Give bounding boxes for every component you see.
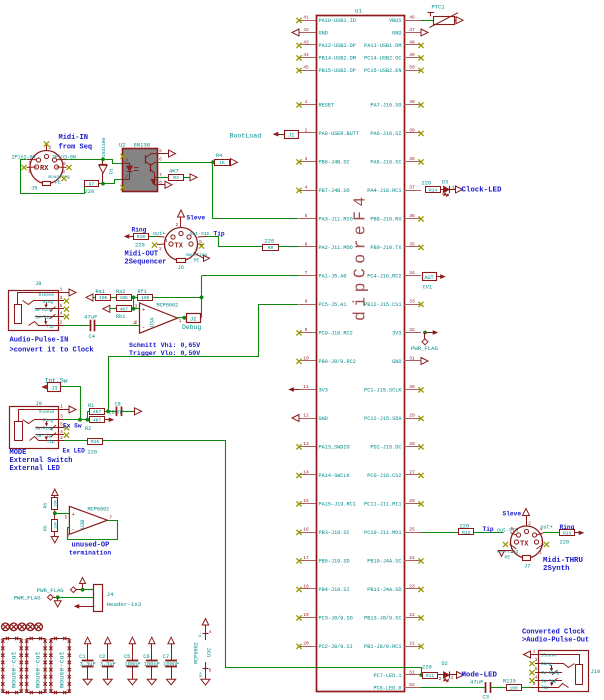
svg-text:R1: R1 [88, 403, 94, 409]
svg-text:Ring: Ring [132, 227, 147, 234]
U1 pin 52 PC6-LED.0 [404, 687, 421, 689]
node divider [132, 296, 136, 300]
svg-text:25: 25 [409, 526, 415, 532]
svg-text:1: 1 [28, 169, 31, 175]
U1 pin 9 PC9-J19.RC2 [299, 332, 316, 334]
J10 pin 4 [535, 680, 539, 682]
U1 pin 42 GND [299, 32, 316, 34]
svg-text:Rb1: Rb1 [116, 314, 125, 320]
svg-text:J10: J10 [591, 669, 601, 675]
svg-text:52: 52 [409, 682, 415, 688]
J7 pin 4 stub right [537, 533, 544, 535]
svg-text:mouse-cut: mouse-cut [59, 651, 67, 688]
svg-text:mounting: mounting [49, 175, 70, 180]
svg-text:PA1-J5.A0: PA1-J5.A0 [319, 273, 347, 279]
svg-text:28: 28 [409, 441, 415, 447]
wire J5 pin5 to opto [66, 159, 103, 161]
capacitor C2 3.3uF [105, 637, 111, 644]
U1 pin 43 PA12-USB1.DP [299, 44, 316, 46]
svg-text:D3: D3 [442, 179, 448, 185]
svg-text:R2: R2 [85, 426, 91, 432]
svg-text:18: 18 [303, 583, 309, 589]
svg-text:R14: R14 [429, 187, 438, 193]
svg-text:24: 24 [409, 555, 415, 561]
svg-text:3: 3 [535, 657, 538, 663]
U1 pin 46 VBUS [404, 20, 421, 22]
svg-text:1K: 1K [219, 160, 225, 166]
J8 pin 1 [58, 292, 69, 294]
svg-text:3: 3 [62, 169, 65, 175]
svg-text:7: 7 [159, 172, 162, 178]
U1 pin 6 PA2-J11.MOO [299, 246, 316, 248]
svg-text:5: 5 [65, 514, 68, 520]
svg-text:C5: C5 [124, 654, 130, 660]
svg-text:Sleeve: Sleeve [39, 410, 55, 415]
svg-text:3: 3 [305, 156, 308, 162]
svg-text:7: 7 [305, 270, 308, 276]
svg-text:PTC1: PTC1 [432, 4, 446, 11]
svg-text:40: 40 [409, 99, 415, 105]
wire C4 to opamp [95, 325, 140, 327]
U1 pin 7 PA1-J5.A0 [299, 275, 316, 277]
svg-text:U3A: U3A [150, 317, 156, 327]
svg-text:220: 220 [265, 238, 275, 244]
U1 pin 49 PC14-USB2.OC [404, 57, 421, 59]
GND arrow J4 [57, 597, 59, 601]
U1 pin 47 GND [404, 32, 421, 34]
U1 pin 48 PA11-USB1.DM [404, 44, 421, 46]
svg-text:PE: PE [194, 258, 200, 264]
svg-text:31: 31 [409, 355, 415, 361]
U1 pin 4 PB7-J4B.SO [299, 190, 316, 192]
svg-text:PB7-J4B.SO: PB7-J4B.SO [319, 188, 350, 194]
svg-text:PA11-USB1.DM: PA11-USB1.DM [364, 43, 401, 49]
U1 pin 32 3V3 [404, 332, 421, 334]
op-amp power U3C MCP6002 [202, 619, 208, 626]
U1 pin 3 PB6-J4B.SC [299, 161, 316, 163]
svg-text:5: 5 [511, 526, 514, 532]
U1 pin 25 PC10-J11.MO1 [404, 532, 421, 534]
wire R7 to node [99, 183, 103, 185]
U1 pin 31 GND [404, 360, 421, 362]
svg-text:PC12-J15.SDA: PC12-J15.SDA [364, 416, 402, 422]
svg-text:V-: V- [198, 632, 204, 638]
svg-text:PB13-J8/9.SC: PB13-J8/9.SC [364, 615, 401, 621]
U1 pin 8 PC5-J5.A1 [299, 304, 316, 306]
node D1 top [101, 157, 105, 161]
J9 pin 5 [59, 427, 65, 429]
svg-text:21: 21 [409, 640, 415, 646]
wire Rf1 feedback [153, 297, 202, 299]
svg-text:1: 1 [539, 550, 542, 556]
svg-text:Ex LED: Ex LED [63, 447, 86, 454]
svg-text:2: 2 [60, 435, 63, 441]
svg-text:220: 220 [422, 665, 432, 671]
wire C8 to gnd arrow [121, 411, 134, 413]
svg-text:4K7: 4K7 [120, 307, 129, 313]
node U2 out [211, 160, 215, 164]
wire J3 to Ex SW node [61, 387, 81, 420]
U1 pin 22 PB13-J8/9.SC [404, 617, 421, 619]
svg-text:6N138: 6N138 [134, 142, 151, 149]
svg-text:10K: 10K [99, 295, 108, 301]
svg-text:R11: R11 [426, 673, 435, 679]
svg-text:PA13_SWDIO: PA13_SWDIO [319, 444, 350, 450]
node J4 pin1 [81, 588, 85, 592]
svg-text:R13: R13 [563, 531, 572, 537]
wire opamp out [178, 317, 187, 319]
svg-text:46: 46 [409, 14, 415, 20]
svg-text:U3B: U3B [80, 520, 86, 529]
svg-text:43: 43 [303, 39, 309, 45]
svg-text:4: 4 [209, 629, 212, 635]
svg-text:termination: termination [69, 550, 111, 557]
IC U1 dipCoreF4 body [317, 16, 405, 692]
node pin51 [419, 673, 423, 677]
J10 pin 5 [535, 672, 539, 674]
svg-text:29: 29 [409, 412, 415, 418]
J7 PE arrow [502, 550, 512, 552]
node D1 bottom [101, 182, 105, 186]
svg-text:26: 26 [409, 498, 415, 504]
3V3 arrow R5 [52, 489, 58, 496]
resistor Ex LED 220 [64, 440, 88, 442]
svg-text:J5: J5 [31, 186, 37, 192]
mouse-cut region 1 [3, 639, 21, 693]
svg-text:4: 4 [165, 238, 168, 244]
svg-text:4: 4 [28, 160, 31, 166]
svg-text:23: 23 [409, 583, 415, 589]
svg-text:Audio-Pulse-IN: Audio-Pulse-IN [10, 337, 69, 345]
U1 pin 18 PB4-J19.SI [299, 588, 316, 590]
svg-text:PA15-J19.RC1: PA15-J19.RC1 [319, 501, 356, 507]
U1 pin 29 PC12-J15.SDA [404, 418, 421, 420]
wire R9 to pin6 U1 [278, 246, 299, 248]
svg-text:U2: U2 [119, 142, 126, 149]
svg-text:PA2-J11.MOO: PA2-J11.MOO [319, 245, 353, 251]
U1 pin 27 PC0-J16.CS2 [404, 474, 421, 476]
svg-text:MODE: MODE [10, 449, 27, 457]
svg-text:GND: GND [392, 30, 401, 36]
net arrow Ring J7 [575, 532, 579, 534]
svg-text:3: 3 [60, 295, 63, 301]
3V3 arrow pin 11 [294, 389, 300, 391]
svg-text:10K: 10K [54, 499, 58, 507]
net arrow Mode-LED [457, 672, 464, 679]
U1 pin 17 PB5-J19.SD [299, 560, 316, 562]
svg-text:PB9-J10.TX: PB9-J10.TX [370, 245, 402, 251]
capacitor C7 100nF [168, 637, 174, 644]
svg-text:Midi-IN: Midi-IN [59, 134, 88, 142]
svg-text:42: 42 [303, 27, 309, 33]
svg-text:2: 2 [125, 174, 128, 180]
svg-text:Tip: Tip [47, 440, 55, 445]
svg-text:RX: RX [40, 165, 49, 173]
svg-text:220: 220 [88, 449, 98, 455]
J5 pin 4 stub [27, 158, 36, 160]
svg-text:PB15-USB2.DP: PB15-USB2.DP [319, 68, 356, 74]
svg-text:GND: GND [392, 359, 401, 365]
U1 pin 51 PC7-LED.1 [404, 674, 421, 676]
svg-text:SW-Ring: SW-Ring [35, 426, 53, 431]
svg-text:PA12-USB1.DP: PA12-USB1.DP [319, 43, 356, 49]
svg-text:PC6-LED.0: PC6-LED.0 [373, 685, 401, 691]
DIN connector J5 RX [30, 151, 63, 184]
op-amp U3B MCP6002 [69, 506, 107, 534]
svg-text:2: 2 [60, 320, 63, 326]
GND arrow R6 [54, 532, 56, 537]
svg-text:2: 2 [135, 320, 138, 326]
svg-text:4: 4 [305, 184, 308, 190]
svg-text:R7: R7 [89, 181, 95, 187]
svg-text:47uF: 47uF [84, 313, 97, 320]
svg-text:>Audio-Pulse-Out: >Audio-Pulse-Out [522, 637, 589, 645]
mouse-cut region 2 [27, 639, 45, 693]
svg-text:Ring: Ring [43, 300, 54, 305]
J5 PE no-connect [61, 176, 66, 181]
header J4 1x3 [94, 585, 103, 612]
wire out up to pin7 [201, 276, 203, 318]
svg-text:TX: TX [520, 541, 529, 549]
svg-text:PB0-J8/9.RC2: PB0-J8/9.RC2 [319, 359, 356, 365]
svg-text:PB12-J15.CS1: PB12-J15.CS1 [364, 302, 401, 308]
J9 pin 2 Ex LED [59, 440, 65, 442]
U1 pin 12 GND [299, 418, 316, 420]
svg-text:-: - [71, 527, 75, 534]
svg-text:mouse-cut: mouse-cut [10, 651, 18, 688]
wire to U2 pin3 [103, 160, 123, 164]
wire J8 tip to C4 [64, 325, 90, 327]
svg-text:Ra2: Ra2 [116, 289, 125, 295]
svg-text:3V3: 3V3 [319, 387, 328, 393]
U1 pin 26 PC11-J11.MI1 [404, 503, 421, 505]
svg-text:100: 100 [141, 295, 150, 301]
svg-text:PC2-J8/9.SI: PC2-J8/9.SI [319, 644, 353, 650]
J7 pin 5 stub left [511, 533, 517, 535]
optocoupler U2 6N138 [123, 149, 158, 192]
U1 pin 41 PA10-USB1.ID [299, 20, 316, 22]
wire J5 pin4 loop [21, 160, 85, 194]
svg-text:PC5-J5.A1: PC5-J5.A1 [319, 302, 347, 308]
svg-text:R6: R6 [43, 525, 49, 531]
svg-text:PB6-J4B.SC: PB6-J4B.SC [319, 159, 350, 165]
diode D1 1N4148W [102, 159, 104, 164]
svg-text:J3: J3 [51, 385, 57, 391]
svg-text:Header-1x3: Header-1x3 [107, 601, 142, 608]
svg-text:Ring: Ring [541, 662, 552, 667]
svg-text:3.3uF: 3.3uF [80, 662, 96, 668]
svg-text:5: 5 [305, 213, 308, 219]
svg-text:PWR_FLAG: PWR_FLAG [14, 595, 41, 602]
U1 pin 36 PB8-J10.RX [404, 218, 421, 220]
wire R115 to J10 [521, 687, 530, 689]
svg-text:19: 19 [303, 612, 309, 618]
svg-text:SW-Tip: SW-Tip [36, 316, 52, 321]
svg-text:J8: J8 [35, 281, 41, 287]
svg-text:20: 20 [303, 640, 309, 646]
U1 pin 2 PA0-USER.BUTT [299, 132, 316, 134]
svg-text:2: 2 [305, 127, 308, 133]
svg-text:R3: R3 [173, 175, 179, 181]
svg-text:3: 3 [511, 549, 514, 555]
svg-text:J1: J1 [288, 133, 294, 139]
wire pin52 to C3 [420, 687, 485, 689]
node J4 pin2 [56, 595, 60, 599]
svg-text:Ra1: Ra1 [96, 289, 105, 295]
U1 pin 11 3V3 [299, 389, 316, 391]
svg-text:J4: J4 [107, 591, 114, 598]
svg-text:3.3uF: 3.3uF [100, 662, 116, 668]
U1 pin 19 PC3-J8/9.SO [299, 617, 316, 619]
svg-text:PB5-J19.SD: PB5-J19.SD [319, 558, 350, 564]
svg-text:44: 44 [303, 52, 309, 58]
svg-text:3V3: 3V3 [392, 330, 401, 336]
svg-text:1: 1 [60, 287, 63, 293]
svg-text:10K: 10K [120, 295, 129, 301]
svg-text:PC3-J8/9.SO: PC3-J8/9.SO [319, 615, 353, 621]
svg-text:PB14-USB2.DM: PB14-USB2.DM [319, 55, 356, 61]
svg-text:PB3-J19.SC: PB3-J19.SC [319, 530, 350, 536]
net arrow Ra1 left [86, 294, 93, 301]
node R1R2 join [86, 418, 90, 422]
svg-text:100: 100 [510, 685, 519, 691]
svg-text:mouse-cut: mouse-cut [34, 651, 42, 688]
svg-text:V+: V+ [198, 672, 204, 678]
U1 pin 28 PD2-J15.DC [404, 446, 421, 448]
wire out-SIG to R9 [207, 237, 263, 247]
resistor Rb1 4K7 [117, 306, 132, 312]
svg-text:PA3-J11.MIO: PA3-J11.MIO [319, 216, 353, 222]
svg-text:Sleve: Sleve [503, 511, 522, 518]
DIN connector J6 TX [165, 228, 198, 261]
J6 PE arrow [194, 253, 204, 259]
svg-text:Debug: Debug [182, 324, 201, 331]
svg-text:PWR_FLAG: PWR_FLAG [37, 587, 64, 594]
svg-text:4: 4 [60, 429, 63, 435]
svg-text:8: 8 [305, 298, 308, 304]
svg-text:2Synth: 2Synth [543, 565, 570, 573]
svg-text:220: 220 [85, 189, 95, 195]
svg-text:Schmitt Vhi: 0,65V: Schmitt Vhi: 0,65V [129, 342, 200, 349]
U1 pin 21 PB1-J8/9.RC1 [404, 646, 421, 648]
svg-text:27: 27 [409, 469, 415, 475]
U1 pin 1 RESET [299, 104, 316, 106]
svg-text:220: 220 [135, 243, 145, 249]
node R5 R6 [54, 510, 56, 519]
svg-text:4K7: 4K7 [93, 409, 102, 415]
U1 pin 15 PA15-J19.RC1 [299, 503, 316, 505]
jack J10 [539, 651, 589, 692]
svg-text:Rf1: Rf1 [138, 289, 147, 295]
svg-text:PB1-J8/9.RC1: PB1-J8/9.RC1 [364, 644, 401, 650]
Sleve arrow J7 [523, 509, 530, 516]
svg-text:GND: GND [319, 30, 328, 36]
svg-text:3: 3 [135, 303, 138, 309]
U1 pin 35 PB9-J10.TX [404, 246, 421, 248]
svg-text:41: 41 [303, 14, 309, 20]
J8 pin 5 [58, 308, 64, 310]
net arrow Clock-LED [456, 186, 463, 193]
svg-text:3: 3 [60, 414, 63, 420]
resistor R5 10K [52, 498, 58, 510]
svg-text:PA6-J16.SI: PA6-J16.SI [370, 131, 401, 137]
mouse-cut region 3 [51, 639, 69, 693]
op-amp U3A MCP6002 [140, 303, 178, 333]
svg-text:9: 9 [305, 327, 308, 333]
svg-text:C1: C1 [79, 654, 85, 660]
wire Ex SW rail [64, 419, 90, 421]
svg-text:out+: out+ [541, 525, 553, 531]
wire VBUS to PTC1 [421, 20, 434, 22]
J7 pin 1 stub [537, 544, 544, 549]
node J3 join [78, 418, 82, 422]
svg-text:Sleve: Sleve [187, 215, 206, 222]
capacitor C5 100nF [129, 637, 135, 644]
U1 pin 10 PB0-J8/9.RC2 [299, 360, 316, 362]
U1 pin 50 PC15-USB2.EN [404, 70, 421, 72]
svg-text:PB11-J4A.SD: PB11-J4A.SD [367, 587, 401, 593]
svg-text:7: 7 [109, 514, 112, 520]
svg-text:4K7: 4K7 [169, 168, 179, 174]
svg-text:5: 5 [63, 161, 66, 167]
svg-text:50: 50 [409, 64, 415, 70]
connector J2 Debug [187, 314, 201, 323]
svg-text:14: 14 [303, 469, 309, 475]
svg-text:1: 1 [60, 404, 63, 410]
svg-text:PC14-USB2.OC: PC14-USB2.OC [364, 55, 401, 61]
J9 pin 4 [59, 434, 65, 436]
svg-text:R12: R12 [462, 530, 471, 536]
resistor R2 4K7 [90, 417, 105, 423]
svg-text:AUT: AUT [424, 275, 433, 281]
U1 pin 34 PC4-J16_RC2 [404, 275, 421, 277]
net arrow R4 [230, 162, 231, 164]
svg-text:R10: R10 [137, 234, 146, 240]
wire divider to plus [133, 297, 135, 308]
svg-text:PC10-J11.MO1: PC10-J11.MO1 [364, 530, 401, 536]
wire U3B feedback [68, 521, 118, 540]
svg-text:47uF: 47uF [470, 678, 483, 685]
svg-text:5: 5 [60, 303, 63, 309]
svg-text:C3: C3 [483, 695, 489, 700]
svg-text:PC15-USB2.EN: PC15-USB2.EN [364, 68, 401, 74]
U1 pin 20 PC2-J8/9.SI [299, 646, 316, 648]
J5 pin 2 top [46, 145, 48, 151]
svg-text:GND: GND [319, 416, 328, 422]
svg-text:PA0-USER.BUTT: PA0-USER.BUTT [319, 131, 359, 137]
J8 pin 3 [58, 300, 64, 302]
svg-text:SW-Tip: SW-Tip [541, 679, 557, 684]
3V3 arrow J4 [80, 578, 86, 584]
U1 pin 37 PA4-J18.RC1 [404, 190, 421, 192]
svg-text:100nF: 100nF [144, 662, 160, 668]
resistor R6 10K [52, 520, 58, 532]
wire divider to U3B plus [55, 513, 70, 515]
svg-text:Ex Sw: Ex Sw [63, 422, 82, 429]
svg-text:34: 34 [409, 270, 415, 276]
svg-text:PC7-LED.1: PC7-LED.1 [373, 673, 401, 679]
wire R1 to C8 [105, 411, 117, 413]
capacitor C1 3.3uF [84, 637, 90, 644]
svg-text:U1: U1 [355, 8, 362, 15]
svg-text:MCP6002: MCP6002 [157, 302, 179, 308]
thermistor PTC1 [434, 17, 455, 25]
U1 pin 23 PB11-J4A.SD [404, 588, 421, 590]
U1 pin 16 PB3-J19.SC [299, 532, 316, 534]
svg-text:45: 45 [303, 64, 309, 70]
arrow J4 pin3 [80, 606, 93, 608]
svg-text:37: 37 [409, 184, 415, 190]
